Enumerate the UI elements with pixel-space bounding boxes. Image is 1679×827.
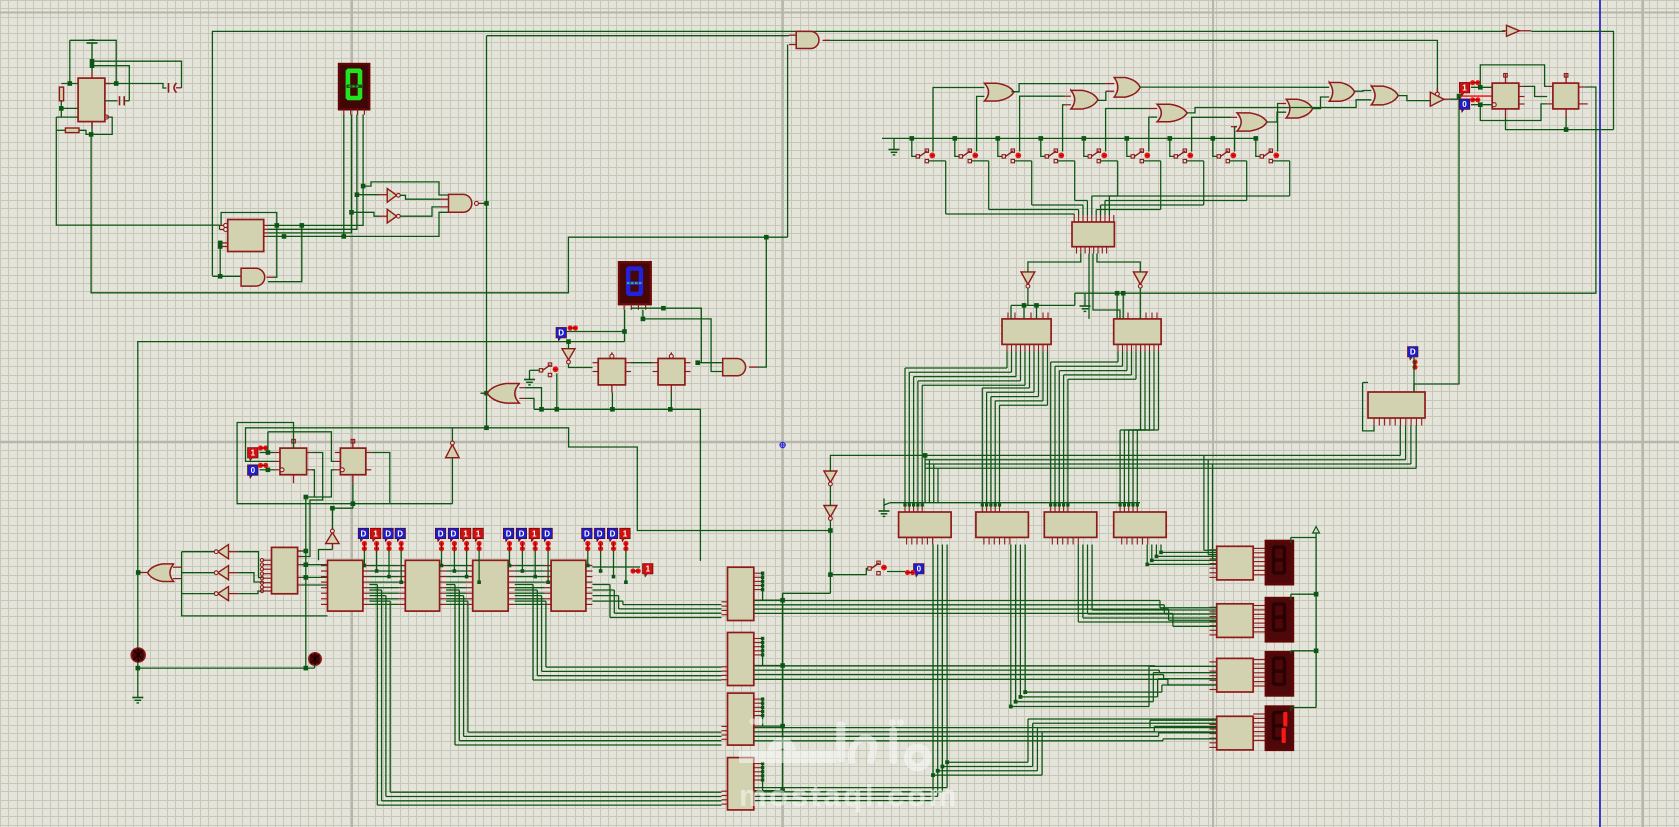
wire Q1 to display [268, 115, 357, 230]
7-segment display DSP3 [1266, 652, 1293, 695]
pin A3 out [749, 366, 758, 368]
logic probe row4-4 [620, 528, 631, 541]
pin U1 pin7 [105, 83, 110, 85]
junction [484, 201, 489, 206]
pins DR1 left [1210, 550, 1217, 578]
junction [304, 666, 309, 671]
logic probe row1-2 [370, 528, 381, 541]
junction rail sw2 [953, 136, 958, 141]
junction [780, 598, 785, 603]
wire B2 in [357, 194, 379, 196]
wire bundle WC1 deep to driver4 [933, 545, 1217, 801]
wire D1 to display [567, 331, 625, 333]
wire sw2 drop [955, 138, 959, 156]
wire sw6 drop [1127, 138, 1131, 156]
pins C2 right cluster [754, 639, 763, 655]
switch SW9 [1260, 149, 1279, 163]
switch SW3 [1002, 149, 1021, 163]
pin I6 in [229, 593, 239, 595]
wire E1 out [1450, 96, 1459, 99]
wire 555 pin2 stub [61, 107, 78, 109]
pins O10 in [173, 567, 182, 578]
junction [780, 663, 785, 668]
svg-text:D: D [597, 529, 603, 538]
wire AND1 in [212, 275, 241, 277]
wire sw10 in [830, 569, 868, 575]
wire I5 out [182, 572, 215, 574]
switch SW10 [868, 561, 887, 575]
junction [761, 778, 764, 781]
junction [266, 450, 271, 455]
inverter B3 bubble [397, 214, 401, 218]
junction [1049, 503, 1052, 506]
wire C1 right [125, 100, 130, 102]
switch SW1 [916, 149, 935, 163]
flip-flop U3 [598, 359, 625, 385]
ground mid [1080, 300, 1091, 311]
wire E1 down long [1414, 96, 1459, 392]
wire probe drop [478, 551, 480, 583]
logic probe P0 blue 0 [247, 465, 258, 478]
and gate A3 [723, 359, 746, 376]
junction [361, 184, 366, 189]
junction [218, 241, 223, 246]
probe dots [1470, 80, 1480, 85]
wire C4 cluster tie [762, 764, 764, 791]
wire SW2 out [556, 373, 558, 409]
demultiplexer U9 [1368, 392, 1425, 418]
pin O9 out [481, 392, 488, 394]
junction [586, 564, 590, 568]
wire display common [1315, 533, 1317, 708]
wire sw8 up [1235, 127, 1237, 152]
wire U5 pin1 [298, 550, 306, 552]
wire bus U9 to left [925, 426, 1416, 469]
wire to cap C1 [92, 66, 129, 101]
and gate A2 [796, 31, 819, 48]
svg-text:D: D [451, 529, 457, 538]
junction [903, 503, 906, 506]
wire bus drops [925, 455, 938, 502]
junction [521, 569, 525, 573]
wire U9 left loop [1363, 382, 1368, 384]
wire U4 bot drop [670, 393, 672, 410]
pins C1 right cluster [754, 573, 763, 589]
resistor R1 [59, 87, 63, 101]
svg-text:0: 0 [917, 565, 922, 574]
junction [1115, 291, 1120, 296]
junction [1119, 503, 1122, 506]
wire C2 cluster tie [762, 639, 764, 666]
probe dots [623, 541, 628, 551]
pin U2 c [220, 242, 228, 244]
nand bubble X1 [475, 201, 479, 205]
junction [1145, 563, 1149, 567]
junction [981, 503, 984, 506]
latch U2 [228, 220, 264, 252]
wire left vcc drop [69, 40, 71, 83]
logic probe F0 blue [1459, 99, 1470, 112]
wire FF1 Q to FF2 clk [1525, 86, 1548, 96]
wire gnd branch2 [91, 61, 93, 71]
ground 555 top [87, 40, 98, 48]
junction [599, 569, 603, 573]
junction [828, 572, 833, 577]
wire top rail right [1531, 31, 1613, 129]
junction [998, 503, 1001, 506]
wire G5 out [1267, 112, 1286, 122]
buffer B6 down bubble [829, 517, 833, 521]
flip-flop FF2 [1553, 83, 1579, 109]
adder UA [1002, 319, 1051, 345]
svg-text:D: D [385, 529, 391, 538]
and gate A1 [241, 268, 265, 286]
wire U8b down1 [1088, 254, 1090, 319]
pin square FF2 [1564, 74, 1568, 78]
led D3 [309, 653, 321, 665]
wire probe drop [400, 551, 402, 583]
wire B3 out [400, 207, 440, 216]
wire sw3 up [1020, 96, 1065, 151]
buffer B5 down bubble [829, 482, 833, 486]
wire bundle T4 to column chip [592, 585, 721, 618]
logic probe row1-4 [395, 528, 406, 541]
or gate G2 [1071, 90, 1098, 109]
pins UB bottom [1118, 344, 1159, 351]
wire bundle UA to WC1 [905, 352, 1025, 506]
wire U2 clk b [219, 225, 221, 229]
wire sw3 out low [1015, 160, 1032, 162]
junction [477, 580, 481, 584]
junction [90, 63, 95, 68]
junction [780, 788, 785, 793]
logic probe row3-3 [529, 528, 540, 541]
wire R1 bottom node [60, 101, 62, 117]
inverter B3 [387, 209, 397, 223]
wire switch rail [882, 137, 1256, 139]
junction [349, 210, 354, 215]
junction [931, 773, 935, 777]
wire probe drop [547, 551, 549, 583]
junction [695, 360, 700, 365]
wire O9 out [481, 392, 487, 394]
junction [761, 710, 764, 713]
wire U7 bot drop [352, 483, 354, 504]
wire B6 out [829, 521, 831, 594]
watermark [739, 718, 959, 813]
wire Q3 to display [268, 115, 344, 237]
junction [266, 468, 271, 473]
pin A2 in1 [789, 34, 796, 36]
wire FF2 Q return [1075, 87, 1596, 293]
wire U2 en drop [219, 243, 221, 276]
pin A2 out [823, 39, 831, 41]
junction [1121, 291, 1126, 296]
probe dots [386, 541, 391, 551]
wire I6 feed [238, 591, 262, 594]
wire led bus [137, 662, 139, 668]
wire G1 out [1011, 84, 1105, 92]
wire bus ext to triangles [830, 454, 925, 457]
inverter I6 left bubble [214, 592, 218, 596]
inverter I7 down [1021, 272, 1035, 285]
svg-text:1: 1 [1462, 84, 1467, 93]
pin C1 right mid [754, 599, 760, 601]
wire FF loop bottom [1480, 104, 1547, 121]
pins U9 bottom [1374, 418, 1422, 426]
junction [761, 584, 764, 587]
svg-text:D: D [544, 529, 550, 538]
wire led link [138, 667, 315, 669]
probe dots [520, 541, 525, 551]
pins U5 right [298, 551, 302, 585]
wire res-chip left [61, 83, 78, 85]
pins T3 left [466, 566, 473, 605]
wire SW2 gnd drop [529, 370, 531, 373]
wire U7 clk loop [314, 470, 334, 497]
major grid line x=1213 [1212, 0, 1214, 827]
timer U1 555 [78, 78, 105, 122]
wire B5 in [829, 456, 831, 471]
inverter I2 down bubble [567, 360, 571, 364]
inverter B2 bubble [397, 193, 401, 197]
pins T2 right [440, 566, 447, 605]
wire bundle T3 to column chip [515, 585, 722, 681]
pins WC2 top [982, 505, 999, 512]
pin E1 out [1444, 98, 1450, 100]
switch SW5 [1088, 149, 1107, 163]
svg-text:1: 1 [463, 529, 468, 538]
wire U5-T1 d [302, 584, 328, 586]
junction [375, 569, 379, 573]
junction [912, 503, 915, 506]
junction [668, 407, 673, 412]
nand gate X1 [449, 194, 472, 212]
wire U7 Q right [371, 453, 390, 504]
junction [761, 649, 764, 652]
pin FF1 top [1505, 74, 1507, 83]
probe dots [477, 541, 482, 551]
wire probe drop [509, 551, 511, 566]
wire C3 to chain [760, 725, 783, 727]
probe dots [598, 541, 603, 551]
pin B4 in [331, 544, 333, 550]
probe dots [362, 541, 367, 551]
pins G2 in [1065, 96, 1071, 105]
pins C1 left [722, 602, 728, 615]
wire 555 node down long [91, 134, 788, 292]
wire sw8 out low [1230, 160, 1247, 162]
probe dots [585, 541, 590, 551]
wire sw6 out low [1144, 160, 1161, 162]
7-segment display DISP1 green [339, 64, 369, 115]
wire A3 out up [758, 237, 767, 367]
pin U2 b [220, 229, 224, 231]
display DSP4 lit segments [1282, 712, 1288, 743]
wire Q0 to display [268, 115, 363, 226]
wire probe drop [453, 551, 455, 572]
or gate O10 mirrored [148, 564, 174, 582]
major grid line y=442 [0, 441, 1679, 444]
wire 555 pin bottom [91, 122, 93, 135]
svg-text:D: D [558, 329, 564, 338]
logic probe F1 red [1459, 82, 1470, 95]
wire probe drop [521, 551, 523, 572]
7-segment display DISP2 blue [619, 262, 651, 310]
pin square U6 top [292, 439, 296, 443]
junction [1478, 102, 1483, 107]
svg-text:D: D [519, 529, 525, 538]
pin B2 in [379, 194, 387, 196]
switch SW8 [1217, 149, 1236, 163]
buffer B4 up bubble [331, 529, 335, 533]
pins U5 left [263, 560, 272, 591]
junction [1159, 551, 1163, 555]
junction [761, 645, 764, 648]
junction [1123, 503, 1126, 506]
register T3 [473, 560, 509, 611]
junction [1136, 503, 1139, 506]
junction rail sw7 [1168, 136, 1173, 141]
flip-flop FF1 [1492, 83, 1519, 109]
wire display common stubs [1291, 538, 1316, 712]
ground bottom left [132, 692, 143, 703]
junction [304, 495, 309, 500]
wire U9 left loop2 [1363, 383, 1374, 431]
pins U7 [335, 453, 371, 470]
logic probe row2-1 [435, 528, 446, 541]
junction [612, 575, 616, 579]
wire I8 out [1139, 288, 1141, 319]
wire U5-T1 c [302, 576, 328, 578]
wire FF loop top [1480, 65, 1547, 87]
wire disp node2 [642, 310, 644, 319]
junction [916, 503, 919, 506]
junction rail sw5 [1082, 136, 1087, 141]
junction rail sw9 [1254, 136, 1259, 141]
junction [780, 724, 785, 729]
junction [923, 453, 928, 458]
tristate buffer E1 bubble [1436, 92, 1440, 96]
probe dots [452, 541, 457, 551]
wire bus C1 outputs [754, 601, 1173, 614]
wire FF bottom rail [1506, 118, 1614, 130]
wire rail gnd stub [893, 138, 895, 143]
junction [1131, 503, 1134, 506]
junction [282, 234, 287, 239]
origin marker blue [779, 442, 785, 448]
probe P1 dots [258, 445, 268, 450]
register T4 [551, 560, 586, 611]
svg-text:D: D [397, 529, 403, 538]
capacitor C1 [120, 96, 125, 105]
wire vcc top loop [70, 40, 116, 83]
inverter B2 [387, 189, 397, 203]
wire A1 out up [274, 225, 277, 277]
wire probe drop [534, 551, 536, 577]
wire 305 into A1 [1023, 305, 1025, 319]
pin bubble U3 top [610, 354, 614, 358]
wire 305 into A2 [1036, 305, 1038, 319]
wire up to AND2 b [787, 45, 789, 238]
led D2 [131, 648, 145, 662]
column chip C4 [728, 758, 754, 810]
junction [1053, 503, 1056, 506]
wire C1 to chain [760, 599, 783, 601]
pins C3 left [722, 726, 728, 739]
svg-text:1: 1 [373, 529, 378, 538]
svg-text:D: D [1410, 348, 1416, 357]
wire driver feeders [1150, 601, 1217, 741]
pin U2 d [220, 246, 228, 248]
register T2 [405, 560, 439, 611]
wire I5 feed [238, 573, 262, 582]
switch SW2 [959, 149, 978, 163]
pins DR3 left [1210, 662, 1217, 690]
pins FF2 sides [1547, 86, 1588, 104]
wire B4 base [319, 550, 333, 561]
buffer B6 down [824, 506, 837, 518]
junction [330, 506, 335, 511]
junction rail sw8 [1211, 136, 1216, 141]
junction [1019, 695, 1023, 699]
wire display pin b [631, 308, 633, 310]
junction [1314, 649, 1319, 654]
wire I3 out down [451, 458, 453, 504]
inverter I5 left [218, 566, 229, 580]
wire F0 wire [1471, 104, 1492, 106]
column chip C3 [728, 693, 754, 745]
wire bus T3-T4 [515, 566, 545, 605]
wire O9 in2 [525, 398, 534, 409]
wire C4 to chain [760, 790, 783, 792]
logic probe D1 blue [556, 327, 567, 340]
wire gnd stub mid [1084, 294, 1086, 300]
logic probe row2-2 [448, 528, 459, 541]
junction rail sw6 [1125, 136, 1130, 141]
pins WC2 bottom [984, 537, 1010, 544]
svg-text:mostaql.com: mostaql.com [739, 778, 959, 813]
wire 293 drop [1074, 293, 1076, 305]
probe D1 dots [568, 325, 578, 330]
pin square FF1 [1504, 74, 1508, 78]
junction [465, 575, 469, 579]
junction [304, 549, 309, 554]
ground SW2 [524, 374, 535, 385]
wire O9 in1 [525, 388, 541, 410]
flip-flop U6 [280, 448, 307, 475]
ground switch rail [889, 144, 900, 155]
latch WC2 [976, 512, 1029, 537]
inverter I3 up [446, 445, 460, 458]
wire inv collect [182, 552, 328, 616]
pin X1 out [478, 202, 482, 204]
svg-text:D: D [438, 529, 444, 538]
junction [761, 766, 764, 769]
pin U6 bot [293, 475, 295, 483]
wire clk chain right [487, 428, 831, 531]
wire bus T1-T2 [369, 566, 398, 605]
wire probe drop [613, 551, 615, 577]
junction rail sw1 [910, 136, 915, 141]
svg-text:D: D [506, 529, 512, 538]
logic probe row3-2 [516, 528, 527, 541]
junction [275, 223, 280, 228]
pins T1 left [321, 566, 328, 605]
resistor R2 [65, 128, 79, 133]
display driver DR4 [1217, 716, 1254, 750]
display driver DR1 [1217, 546, 1254, 580]
